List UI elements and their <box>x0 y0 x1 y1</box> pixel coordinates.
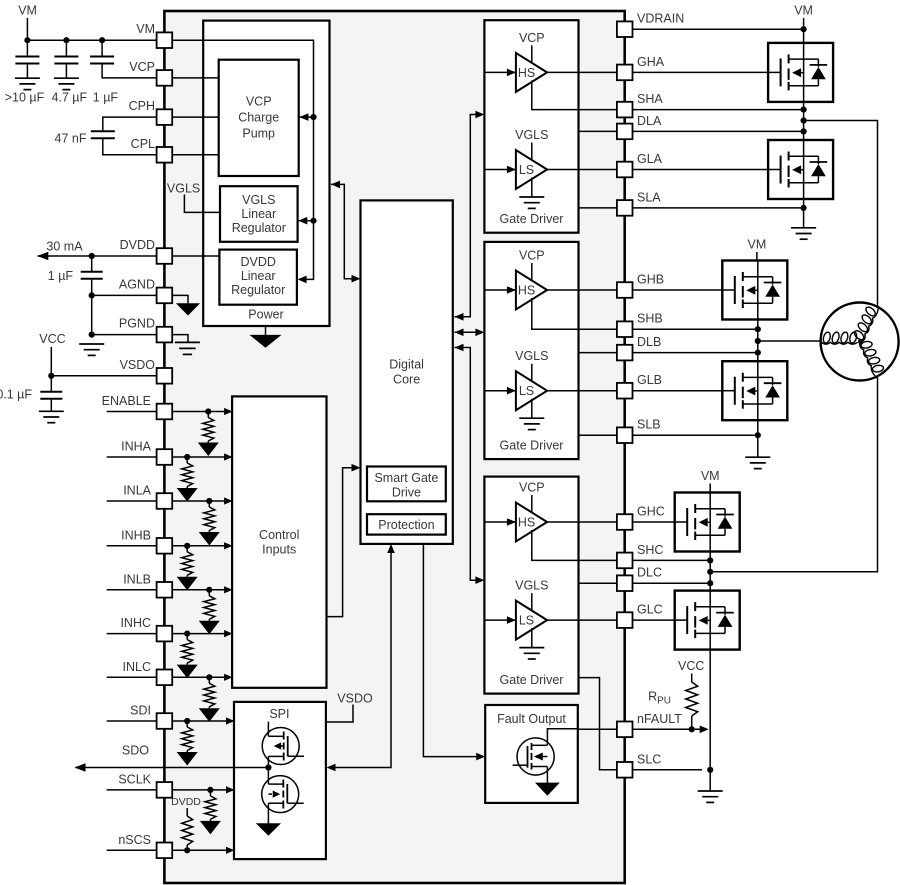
svg-text:VGLS: VGLS <box>167 181 200 195</box>
junction DLA <box>801 128 807 134</box>
wire SLB sense <box>579 434 758 436</box>
pin nFAULT <box>617 722 633 738</box>
junction motor star point <box>858 340 863 345</box>
pin SLC <box>617 762 633 778</box>
wire Control Inputs to Smart Gate Drive <box>327 468 359 617</box>
op-amp LS buffer A <box>516 150 547 189</box>
junction VM rail at VGLS regulator <box>310 218 316 224</box>
junction SHB <box>755 326 761 332</box>
pin CPH <box>157 109 173 125</box>
svg-text:nFAULT: nFAULT <box>637 712 682 726</box>
wire HS source sense to SH A <box>532 80 545 109</box>
ground arrow for SCLK pulldown <box>209 819 211 821</box>
ground arrow for INHC pulldown <box>186 663 188 665</box>
wire VM phase A <box>803 18 805 29</box>
svg-text:DVDD: DVDD <box>120 238 155 252</box>
svg-text:GHB: GHB <box>637 273 664 287</box>
junction SCLK pulldown <box>207 787 213 793</box>
pin SCLK <box>157 782 173 798</box>
wire LS amp to ground A <box>531 178 533 198</box>
svg-text:INHA: INHA <box>121 440 152 454</box>
wire HS source sense to SH C <box>532 530 545 560</box>
svg-text:GLB: GLB <box>637 373 662 387</box>
svg-text:Core: Core <box>393 372 420 386</box>
svg-text:VGLS: VGLS <box>515 579 548 593</box>
block VCP Charge Pump <box>219 60 299 176</box>
wire AGND to PGND ground stub <box>91 295 93 334</box>
svg-text:Smart Gate: Smart Gate <box>374 471 438 485</box>
pin AGND <box>157 288 173 304</box>
svg-text:INLB: INLB <box>123 572 151 586</box>
wire VCP pin to charge pump <box>172 77 219 79</box>
svg-text:SLC: SLC <box>637 752 661 766</box>
wire phase C ground stub <box>709 770 711 791</box>
ground arrow for INLB pulldown <box>208 619 210 621</box>
IC boundary (gate driver device outline) <box>164 11 624 883</box>
junction DVDD at C5 <box>89 253 95 259</box>
svg-text:PGND: PGND <box>119 317 155 331</box>
svg-text:1 µF: 1 µF <box>48 269 74 283</box>
wire VGLS stub to LS amp A <box>531 143 533 162</box>
junction INHC pulldown <box>184 631 190 637</box>
transistor Q_BL low-side B power MOSFET with body diode <box>722 361 787 420</box>
svg-text:SHC: SHC <box>637 543 663 557</box>
svg-text:>10 µF: >10 µF <box>5 91 45 105</box>
op-amp HS buffer C <box>516 503 547 542</box>
wire VSDO stub to SPI block <box>327 705 354 723</box>
svg-text:INHB: INHB <box>121 528 151 542</box>
svg-text:Linear: Linear <box>241 207 276 221</box>
svg-text:VCP: VCP <box>129 60 155 74</box>
svg-text:CPH: CPH <box>129 99 155 113</box>
wire Digital Core to SPI link <box>329 546 392 768</box>
junction on VM rail at C2 <box>63 37 69 43</box>
svg-text:VCP: VCP <box>246 95 272 109</box>
wire phase A to motor <box>804 121 878 307</box>
junction SDI pulldown <box>184 718 190 724</box>
ground in gate driver B <box>519 418 544 429</box>
svg-text:VSDO: VSDO <box>337 692 373 706</box>
wire CPL pin to charge pump <box>172 154 219 156</box>
junction INLC pulldown <box>206 674 212 680</box>
wire DLB drain sense <box>579 352 758 354</box>
pin VM <box>157 32 173 48</box>
ground phase C <box>698 791 723 802</box>
pin DLB <box>617 345 633 361</box>
capacitor C3 1 uF VM-VCP <box>101 40 103 56</box>
op-amp LS buffer B <box>516 371 547 410</box>
wire VM phase C <box>709 484 711 493</box>
resistor pulldown on INHA <box>186 457 188 463</box>
pin INHB <box>157 538 173 554</box>
capacitor C4 47 nF flying cap <box>103 117 157 131</box>
svg-text:Linear: Linear <box>241 269 276 283</box>
svg-text:SLB: SLB <box>637 418 661 432</box>
resistor pulldown on INLB <box>208 590 210 596</box>
wire GLB gate drive <box>547 390 722 392</box>
wire DLA drain sense <box>579 130 804 132</box>
svg-text:SHA: SHA <box>637 92 663 106</box>
svg-text:LS: LS <box>519 163 534 177</box>
svg-text:Pump: Pump <box>242 127 275 141</box>
block Gate Driver B <box>484 242 578 459</box>
wire SLA sense <box>579 207 804 209</box>
wire ENABLE input <box>107 411 232 413</box>
wire PGND pin to internal ground <box>172 335 188 343</box>
resistor pulldown on SDI <box>186 721 188 727</box>
wire Digital Core to Gate Driver B <box>455 331 483 333</box>
svg-text:SCLK: SCLK <box>118 772 151 786</box>
svg-text:DVDD: DVDD <box>240 255 275 269</box>
junction AGND <box>89 292 95 298</box>
pin SHA <box>617 102 633 118</box>
transistor Q2 SPI low side <box>262 776 299 813</box>
svg-text:Gate Driver: Gate Driver <box>500 439 564 453</box>
svg-text:VCP: VCP <box>519 31 545 45</box>
svg-text:Drive: Drive <box>392 485 421 499</box>
block Fault Output <box>485 705 578 803</box>
svg-text:LS: LS <box>519 614 534 628</box>
svg-text:VGLS: VGLS <box>515 349 548 363</box>
block Control Inputs <box>232 396 326 687</box>
svg-text:INLC: INLC <box>123 660 151 674</box>
wire DVDD output with 30 mA arrow <box>38 255 157 257</box>
ground arrow for INHA pulldown <box>186 487 188 489</box>
svg-text:47 nF: 47 nF <box>55 131 87 145</box>
junction phase B motor tap <box>755 338 761 344</box>
wire VGLS stub to regulator <box>184 195 220 213</box>
svg-text:Regulator: Regulator <box>232 221 286 235</box>
wire GHA gate drive <box>547 71 769 73</box>
op-amp LS buffer C <box>516 601 547 640</box>
wire AGND pin to internal ground <box>172 295 188 303</box>
inductor motor winding phase A <box>851 301 880 343</box>
wire Digital Core to Fault Output <box>423 544 483 757</box>
junction INHA pulldown <box>184 454 190 460</box>
pin SLA <box>617 200 633 216</box>
wire GHB gate drive <box>547 289 722 291</box>
wire INHA input <box>107 456 232 458</box>
junction INHB pulldown <box>184 543 190 549</box>
resistor pull-up on nSCS <box>186 808 188 816</box>
inductor motor winding phase C <box>858 337 887 379</box>
ground phase A <box>791 228 816 239</box>
resistor pulldown on INLA <box>208 501 210 507</box>
pin GLA <box>617 162 633 178</box>
ground arrow below Power block <box>265 326 267 335</box>
wire phase B half-bridge vertical <box>757 261 759 458</box>
pin DLA <box>617 124 633 140</box>
junction SLA <box>801 205 807 211</box>
junction phase C motor tap <box>707 569 713 575</box>
svg-text:Digital: Digital <box>389 357 424 371</box>
svg-text:Gate Driver: Gate Driver <box>500 212 564 226</box>
wire VDRAIN to external VM node <box>617 28 804 30</box>
wire input to LS amp B <box>484 390 516 392</box>
motor M 3-phase BLDC <box>821 303 899 381</box>
svg-text:SPI: SPI <box>269 707 289 721</box>
wire SDI input <box>107 720 234 722</box>
pin PGND <box>157 327 173 343</box>
wire SLC sense <box>579 678 703 770</box>
wire input to HS amp B <box>484 289 516 291</box>
wire VM phase B <box>756 252 758 261</box>
svg-text:Charge: Charge <box>238 111 279 125</box>
ground phase B <box>745 457 770 468</box>
op-amp HS buffer B <box>516 271 547 310</box>
ground external AGND/PGND <box>79 344 104 355</box>
wire INLA input <box>107 500 232 502</box>
svg-text:VGLS: VGLS <box>515 128 548 142</box>
svg-text:0.1 µF: 0.1 µF <box>0 387 32 401</box>
svg-text:1 µF: 1 µF <box>93 91 119 105</box>
wire INHC input <box>107 633 232 635</box>
wire SCLK input <box>107 789 234 791</box>
svg-text:VSDO: VSDO <box>120 358 156 372</box>
junction INLB pulldown <box>206 587 212 593</box>
capacitor C1 >10 uF bulk <box>26 40 28 56</box>
wire VM rail into VGLS regulator <box>298 220 314 222</box>
ground arrow for ENABLE pulldown <box>207 441 209 443</box>
svg-text:Fault Output: Fault Output <box>497 712 566 726</box>
ground arrow in Fault Output <box>535 783 560 796</box>
svg-text:VCP: VCP <box>519 481 545 495</box>
svg-text:nSCS: nSCS <box>118 833 151 847</box>
ground arrow for INLC pulldown <box>208 707 210 709</box>
wire GLA gate drive <box>547 169 769 171</box>
junction on VM rail at C1 <box>24 37 30 43</box>
wire AGND to external ground <box>92 294 157 296</box>
ground arrow for INLA pulldown <box>208 531 210 533</box>
wire VGLS stub to LS amp C <box>531 593 533 612</box>
capacitor C5 1 uF DVDD <box>91 256 93 272</box>
pin INHC <box>157 626 173 642</box>
junction SLC <box>707 767 713 773</box>
transistor Q_CH high-side C power MOSFET with body diode <box>675 493 740 552</box>
wire VM pin to internal rail <box>172 40 313 279</box>
svg-text:VDRAIN: VDRAIN <box>637 12 684 26</box>
svg-text:LS: LS <box>519 384 534 398</box>
wire DLC drain sense <box>579 582 711 584</box>
wire input to HS amp A <box>484 71 516 73</box>
svg-text:Control: Control <box>259 528 299 542</box>
pin SLB <box>617 427 633 443</box>
pin GLB <box>617 383 633 399</box>
svg-text:HS: HS <box>518 66 535 80</box>
wire VM rail into VCP charge pump <box>299 116 314 118</box>
svg-text:DVDD: DVDD <box>171 796 201 808</box>
junction PGND <box>89 332 95 338</box>
svg-text:SDI: SDI <box>130 704 151 718</box>
wire nFAULT output <box>578 728 700 730</box>
resistor pulldown on SCLK <box>209 790 211 796</box>
svg-text:CPL: CPL <box>131 137 155 151</box>
svg-text:4.7 µF: 4.7 µF <box>51 91 87 105</box>
junction VSDO at C6 <box>48 373 54 379</box>
svg-text:VGLS: VGLS <box>242 193 275 207</box>
ground for C2 <box>54 78 79 89</box>
wire SDO output with arrow <box>76 767 269 769</box>
wire LS amp to ground B <box>531 399 533 419</box>
svg-text:SDO: SDO <box>122 744 149 758</box>
resistor RPU pull-up <box>691 674 693 683</box>
ground for C1 <box>15 78 40 89</box>
junction SHA <box>801 107 807 113</box>
ground in gate driver A <box>519 197 544 208</box>
ground for C6 <box>39 411 64 422</box>
junction VM rail at charge pump <box>310 114 316 120</box>
svg-text:30 mA: 30 mA <box>46 239 83 253</box>
pin ENABLE <box>157 404 173 420</box>
wire C3 to VCP pin <box>102 64 157 78</box>
transistor Q_CL low-side C power MOSFET with body diode <box>675 591 740 650</box>
svg-text:Protection: Protection <box>378 518 434 532</box>
svg-text:Regulator: Regulator <box>231 283 285 297</box>
resistor pulldown on INHC <box>186 634 188 640</box>
pin SDI <box>157 713 173 729</box>
wire SHB sense <box>545 328 758 330</box>
wire INLB input <box>107 589 232 591</box>
capacitor C6 0.1 uF VSDO <box>50 376 52 392</box>
svg-text:VCC: VCC <box>39 332 65 346</box>
pin DLC <box>617 575 633 591</box>
wire VCC to VSDO <box>50 347 52 376</box>
svg-text:VM: VM <box>18 4 37 18</box>
svg-text:DLA: DLA <box>637 114 662 128</box>
block VGLS Linear Regulator <box>220 186 298 242</box>
svg-text:GHC: GHC <box>637 505 665 519</box>
svg-text:SLA: SLA <box>637 190 661 204</box>
ground arrow AGND internal <box>176 303 200 315</box>
svg-text:GHA: GHA <box>637 55 665 69</box>
wire phase C half-bridge vertical <box>709 493 711 771</box>
block SPI <box>234 702 326 859</box>
pin GHB <box>617 282 633 298</box>
block Power <box>203 21 329 326</box>
wire input to LS amp A <box>484 169 516 171</box>
wire nSCS input <box>107 849 234 851</box>
junction nSCS pull-up <box>184 847 190 853</box>
ground PGND internal <box>175 342 200 354</box>
capacitor C2 4.7 uF <box>65 40 67 56</box>
svg-text:DLC: DLC <box>637 566 662 580</box>
block Gate Driver C <box>484 477 578 694</box>
wire SHA sense <box>545 109 804 111</box>
pin DVDD <box>157 248 173 264</box>
block Smart Gate Drive <box>367 467 446 502</box>
transistor Q_AL low-side A power MOSFET with body diode <box>768 140 833 199</box>
op-amp HS buffer A <box>516 53 547 92</box>
pin nSCS <box>157 843 173 859</box>
svg-text:SHB: SHB <box>637 312 663 326</box>
pin INLA <box>157 493 173 509</box>
pin VSDO <box>157 368 173 384</box>
pin SHB <box>617 321 633 337</box>
svg-text:VCP: VCP <box>519 249 545 263</box>
block Gate Driver A <box>484 20 578 233</box>
wire VCP stub to HS amp C <box>531 495 533 514</box>
pin GLC <box>617 612 633 628</box>
svg-text:VCC: VCC <box>678 659 704 673</box>
wire VGLS stub to LS amp B <box>531 364 533 383</box>
wire Digital Core to Gate Driver C <box>455 348 483 581</box>
svg-text:Inputs: Inputs <box>262 542 296 556</box>
transistor Q_fault open-drain output <box>517 738 554 775</box>
svg-text:INLA: INLA <box>123 484 151 498</box>
svg-text:VM: VM <box>748 238 767 252</box>
wire INHB input <box>107 545 232 547</box>
svg-text:AGND: AGND <box>119 277 155 291</box>
resistor pulldown on INLC <box>208 677 210 683</box>
wire VCP stub to HS amp B <box>531 263 533 282</box>
ground in gate driver C <box>519 648 544 659</box>
wire input to HS amp C <box>484 521 516 523</box>
svg-text:GLA: GLA <box>637 152 663 166</box>
transistor Q1 SPI high side <box>262 728 299 765</box>
resistor pulldown on INHB <box>186 546 188 552</box>
wire LS amp to ground C <box>531 628 533 648</box>
wire VM supply rail <box>26 18 28 40</box>
block Protection <box>367 514 446 534</box>
transistor Q_AH high-side A power MOSFET with body diode <box>768 43 833 102</box>
ground arrow SPI <box>256 823 281 836</box>
junction SHC <box>707 557 713 563</box>
junction SDO node <box>265 764 271 770</box>
svg-text:Gate Driver: Gate Driver <box>500 673 564 687</box>
pin SHC <box>617 553 633 569</box>
svg-text:Power: Power <box>248 308 283 322</box>
pin INHA <box>157 449 173 465</box>
pin VDRAIN <box>617 21 633 37</box>
wire PGND <box>92 334 157 336</box>
svg-text:ENABLE: ENABLE <box>102 394 151 408</box>
svg-text:VM: VM <box>794 4 813 18</box>
svg-text:GLC: GLC <box>637 603 663 617</box>
pin VCP <box>157 70 173 86</box>
block Digital Core <box>361 200 453 544</box>
pin CPL <box>157 147 173 163</box>
junction ENABLE pulldown <box>205 408 211 414</box>
junction SLB <box>755 432 761 438</box>
wire VCP stub to HS amp A <box>531 45 533 64</box>
svg-text:INHC: INHC <box>120 616 151 630</box>
svg-text:HS: HS <box>518 284 535 298</box>
wire Digital Core to Gate Driver A <box>455 115 483 317</box>
svg-text:VM: VM <box>136 22 155 36</box>
wire input to LS amp C <box>484 619 516 621</box>
pin INLB <box>157 582 173 598</box>
wire GHC gate drive <box>547 521 675 523</box>
junction nFAULT pull-up <box>689 726 695 732</box>
junction phase A motor tap <box>801 117 807 123</box>
resistor pulldown on ENABLE <box>207 412 209 418</box>
pin GHA <box>617 65 633 81</box>
junction on VM rail at C3 <box>99 37 105 43</box>
wire INLC input <box>107 676 232 678</box>
junction DLB <box>755 350 761 356</box>
wire phase A half-bridge vertical <box>803 29 805 228</box>
ground arrow for INHB pulldown <box>186 575 188 577</box>
block DVDD Linear Regulator <box>219 250 297 305</box>
junction VDRAIN VM <box>801 26 807 32</box>
wire DVDD pin to regulator <box>172 255 219 257</box>
wire SHC sense <box>545 559 710 561</box>
wire GLC gate drive <box>547 619 675 621</box>
svg-text:VM: VM <box>701 469 720 483</box>
junction DLC <box>707 580 713 586</box>
inductor motor winding phase B <box>822 331 858 344</box>
pin INLC <box>157 670 173 686</box>
